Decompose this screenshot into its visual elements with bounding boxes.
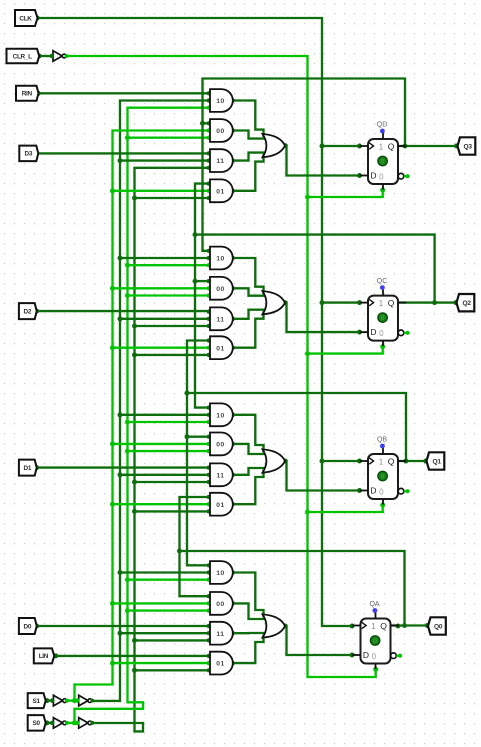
AND gate U3a stage3 10 [210,403,233,426]
wire CLK branch to FF clock [322,301,360,303]
junction select bus [118,316,123,321]
svg-text:RIN: RIN [22,91,33,98]
wire select branch stage3 gate1 bottom input [128,421,209,423]
node stage1 AND3 output [230,158,235,163]
wire RIN to stage1 gate 10 [38,92,209,94]
AND gate U2d stage2 01 [210,336,233,359]
junction select bus [132,638,137,643]
node D1 pin connector [34,465,39,470]
wire select branch stage1 gate4 bottom input [135,197,209,199]
node FF clear pin [380,344,385,349]
junction CLK vertical [320,300,325,305]
svg-text:11: 11 [216,158,224,165]
wire select branch stage4 gate4 bottom input [135,669,209,671]
svg-text:QA: QA [369,601,379,608]
junction Q2 net [193,279,198,284]
wire stage2 gate 01 output to OR [233,311,264,348]
junction select bus [132,352,137,357]
AND gate U4a stage4 10 [210,561,233,584]
inverter U2a (S1 not) [53,695,62,706]
node D0 pin connector [34,624,39,629]
wire D3 to load gate 11 [37,152,209,154]
svg-text:1: 1 [379,299,384,308]
input pin D2 [19,303,37,319]
node stage4 AND2 input [207,594,211,598]
node stage1 FF D pin [357,173,362,178]
junction S1-bar tap [72,698,77,703]
junction select bus [125,293,130,298]
node stage2 AND4 input [207,353,211,357]
AND gate U2a stage2 10 [210,247,233,270]
node Q2 pin connector [453,300,458,305]
svg-text:00: 00 [216,128,225,135]
svg-text:D1: D1 [24,465,32,472]
node stage4 AND2 input [207,609,211,613]
OR gate OR1 [263,134,286,157]
node stage1 AND4 output [230,188,235,193]
AND gate U3c stage3 11 [210,463,233,486]
wire select branch stage2 gate1 bottom input [128,264,209,266]
wire select branch stage3 gate4 bottom input [135,510,209,512]
svg-text:0: 0 [372,652,377,661]
AND gate U4c stage4 11 [210,622,233,645]
svg-text:01: 01 [216,188,225,195]
svg-text:10: 10 [216,412,225,419]
node stage3 AND3 input [207,480,211,484]
node stage2 AND1 input [207,249,211,253]
wire select branch stage2 gate4 mid input [113,347,209,349]
wire D1 to load gate 11 [37,466,209,468]
node stage1 AND3 input [207,159,211,163]
svg-text:00: 00 [216,601,225,608]
svg-text:D0: D0 [24,623,32,630]
wire select branch stage4 gate3 bottom input [135,639,209,641]
node stage1 AND4 input [207,189,211,193]
wire stage4 gate 10 output to OR [233,573,264,618]
node stage4 AND2 output [230,601,235,606]
junction Q1 net [185,434,190,439]
junction select bus [110,502,115,507]
svg-text:QD: QD [377,121,388,128]
node stage2 AND2 input [207,279,211,283]
junction Q2 net [193,232,198,237]
wire stage1 gate 10 output to OR [233,101,264,138]
junction select bus [132,324,137,329]
node stage2 OR output [283,300,288,305]
wire select branch stage2 gate1 mid input [120,257,209,259]
wire S1-bar select line (0x) [75,131,209,701]
input pin S1 [28,693,46,708]
node LIN pin connector [53,653,58,658]
wire S0 select line (x1) [89,168,208,732]
svg-text:QB: QB [377,436,387,443]
node stage3 AND3 input [207,473,211,477]
junction S0-bar tap [72,720,77,725]
node FF clear pin [380,188,385,193]
svg-text:0: 0 [381,315,385,322]
svg-text:10: 10 [216,98,225,105]
node stage2 AND3 input [207,324,211,328]
wire stage2 OR output to FF D [285,303,360,332]
wire select branch stage3 gate2 bottom input [128,450,209,452]
node FF clear pin [380,503,385,508]
wire select branch stage3 gate1 mid input [120,414,209,416]
junction CLK vertical [320,459,325,464]
wire Q1 feedback net (shift-left to stage2) [187,341,406,462]
wire D2 to load gate 11 [37,310,209,312]
node Q3 pin connector [454,144,459,149]
junction select bus [132,668,137,673]
node stage2 AND4 input [207,338,211,342]
input pin CLK [15,10,38,26]
wire S1 inverter to buffer [65,699,79,701]
svg-text:01: 01 [216,345,225,352]
wire S0 pin to inverter [47,722,52,724]
wire stage2 gate 10 output to OR [233,258,264,294]
wire select branch stage3 gate4 mid input [113,503,209,505]
node FF4 clock pin [350,624,355,629]
node stage4 AND3 output [230,631,235,636]
junction select bus [110,441,115,446]
svg-text:1: 1 [371,622,376,631]
AND gate U2c stage2 11 [210,307,233,330]
inverter U3a (S0 not) [53,718,62,729]
wire select branch stage4 gate2 mid input [113,602,209,604]
node stage3 AND4 input [207,509,211,513]
output pin Q1 [427,452,445,469]
input pin LIN [34,648,54,663]
junction CLR vertical [305,351,310,356]
svg-text:0: 0 [381,159,385,166]
wire D0 to load gate 11 [37,625,209,627]
wire S0 inverter to buffer [65,722,79,724]
svg-text:CLR_L: CLR_L [13,53,32,60]
junction Q3 net [200,121,205,126]
AND gate U4b stage4 00 [210,592,233,615]
wire stage4 gate 00 output to OR [233,603,267,619]
node Q0 pin connector [425,623,430,628]
node stage1 AND3 input [207,151,211,155]
node stage2 AND2 output [230,286,235,291]
node stage1 AND1 input [207,106,211,110]
node FF clock pin [357,300,362,305]
junction Q3 feedback tap [403,144,408,149]
wire stage3 gate 11 output to OR [233,468,267,475]
svg-text:11: 11 [216,472,224,479]
svg-text:S1: S1 [32,698,40,705]
junction Q1 feedback tap [404,459,409,464]
junction select bus [125,263,130,268]
AND gate U1c stage1 11 [210,149,233,172]
wire Q2 feedback net (shift-left to stage1) [195,184,435,303]
AND gate U3d stage3 01 [210,493,233,516]
node stage1 AND2 input [207,121,211,125]
svg-text:Q1: Q1 [432,458,441,465]
wire Q2 net down to stage3 gate 10 [195,235,209,408]
OR gate OR3 [263,449,286,472]
svg-text:Q: Q [388,142,395,152]
node stage3 AND2 input [207,435,211,439]
wire stage4 gate 01 output to OR [233,635,264,664]
svg-text:0: 0 [381,474,385,481]
node stage3 FF D pin [357,488,362,493]
wire select branch stage3 gate3 mid input [120,474,209,476]
svg-text:10: 10 [216,570,225,577]
node stage2 AND3 input [207,317,211,321]
wire select branch stage4 gate3 mid input [120,632,209,634]
wire CLR branch to FF clear [308,505,383,512]
wire select branch stage1 gate4 mid input [113,190,209,192]
node stage3 AND1 input [207,420,211,424]
wire CLK branch to FF clock [322,460,360,462]
node stage4 AND4 output [230,661,235,666]
wire stage2 gate 11 output to OR [233,310,267,319]
svg-text:00: 00 [216,442,225,449]
input pin S0 [28,715,46,731]
AND gate U4d stage4 01 [210,652,233,675]
node stage4 AND3 input [207,624,211,628]
AND gate U1d stage1 01 [210,179,233,202]
node FF4 clear pin [373,667,378,672]
node stage4 AND4 input [207,654,211,658]
node FF4 Q pin [396,624,401,629]
input pin D3 [19,146,38,162]
input pin D1 [19,460,37,476]
wire CLR branch to FF clear [308,190,383,197]
node stage4 AND1 input [207,563,211,567]
node stage3 AND4 input [207,495,211,499]
wire Q1 output to pin [399,460,426,462]
node FF clock pin [357,144,362,149]
wire stage1 gate 01 output to OR [233,154,264,191]
junction Q2 feedback tap [432,300,437,305]
svg-text:D: D [363,650,369,660]
wire select branch stage4 gate4 mid input [113,662,209,664]
wire select branch stage3 gate2 mid input [113,443,209,445]
wire select branch stage4 gate1 mid input [120,571,209,573]
svg-text:Q: Q [380,621,387,631]
junction select bus [132,509,137,514]
junction select bus [125,135,130,140]
svg-text:D: D [370,170,376,180]
wire CLK net: pin to all FF clocks [38,18,352,626]
node stage4 AND2 input [207,601,211,605]
junction CLR vertical [305,195,310,200]
svg-text:Q3: Q3 [463,143,472,150]
node stage4 AND4 input [207,661,211,665]
wire CLR_L pin to inverter [39,55,52,57]
node stage3 AND2 input [207,449,211,453]
svg-text:01: 01 [216,661,225,668]
junction select bus [118,412,123,417]
node stage2 AND3 input [207,310,211,314]
node stage3 AND1 output [230,412,235,417]
node stage2 AND1 input [207,263,211,267]
junction select bus [125,449,130,454]
wire Q3 output to pin [399,145,456,147]
node stage2 AND1 output [230,256,235,261]
svg-text:D3: D3 [25,151,33,158]
svg-text:10: 10 [216,256,225,263]
wire S0-bar select line (x0) [75,108,209,723]
svg-text:01: 01 [216,502,225,509]
node stage3 AND1 input [207,406,211,410]
node stage1 AND4 input [207,182,211,186]
wire Q0 feedback net (shift-left to stage3) [180,497,405,626]
node stage2 AND3 output [230,316,235,321]
output pin Q2 [457,294,475,311]
svg-text:0: 0 [379,329,384,338]
wire CLR net: inverter output to FF clear inputs [65,56,375,677]
node FF clock pin [357,459,362,464]
node stage3 AND4 input [207,502,211,506]
node S0 pin connector [45,720,50,725]
node stage3 AND3 input [207,466,211,470]
wire select branch stage2 gate2 mid input [113,287,209,289]
wire stage3 gate 00 output to OR [233,444,267,454]
OR gate OR2 [263,291,286,314]
node stage4 AND3 input [207,631,211,635]
inverter U3b (S0 buffer) [79,718,88,729]
svg-text:LIN: LIN [39,653,49,660]
node stage1 OR output [283,143,288,148]
wire stage4 gate 11 output to OR [233,632,267,635]
node stage1 AND1 input [207,91,211,95]
wire S1 select line (1x) [89,101,208,701]
output pin Q3 [458,137,476,154]
node CLR_L pin connector [37,54,42,59]
node stage4 AND4 input [207,668,211,672]
node stage4 AND1 input [207,570,211,574]
svg-text:0: 0 [379,487,384,496]
wire select branch stage2 gate3 bottom input [135,325,209,327]
wire select branch stage3 gate3 bottom input [135,481,209,483]
svg-text:Q: Q [388,298,395,308]
node D2 pin connector [34,309,39,314]
node stage2 AND4 input [207,346,211,350]
node stage3 AND2 input [207,442,211,446]
node stage2 AND2 input [207,286,211,290]
svg-text:QC: QC [377,278,388,285]
junction select bus [118,631,123,636]
wire select branch stage2 gate4 bottom input [135,354,209,356]
node stage4 AND1 output [230,570,235,575]
junction select bus [132,480,137,485]
wire stage3 gate 10 output to OR [233,415,264,453]
wire select branch stage4 gate1 bottom input [128,579,209,581]
OR gate OR4 [263,614,286,637]
wire Q1 net down to stage4 gate 10 [187,393,209,565]
svg-text:1: 1 [379,142,384,151]
junction select bus [110,601,115,606]
svg-text:Q: Q [388,457,395,467]
output pin Q0 [428,617,446,634]
svg-text:CLK: CLK [19,15,32,22]
wire Q0 output to pin [392,624,428,626]
node stage1 AND2 input [207,136,211,140]
wire select branch stage2 gate3 mid input [120,318,209,320]
node S1 pin connector [45,698,50,703]
wire stage1 gate 11 output to OR [233,153,267,161]
wire Q0 hold branch to stage4 gate 00 [180,551,209,596]
node RIN pin connector [36,91,41,96]
wire select branch stage1 gate2 bottom input [128,137,209,139]
wire LIN to stage4 gate 01 [56,655,209,657]
svg-text:00: 00 [216,286,225,293]
svg-text:D: D [370,327,376,337]
node stage2 AND2 input [207,293,211,297]
node stage3 AND1 input [207,413,211,417]
node stage4 AND3 input [207,638,211,642]
wire Q1 hold branch to stage3 gate 00 [187,436,209,438]
junction select bus [118,158,123,163]
wire Q3 feedback net (hold + shift-right) [203,79,406,251]
junction select bus [125,577,130,582]
input pin CLR_L [7,49,40,64]
AND gate U3b stage3 00 [210,433,233,456]
node stage3 AND3 output [230,472,235,477]
svg-text:1: 1 [379,457,384,466]
node stage1 AND3 input [207,166,211,170]
node stage4 FF D pin [350,653,355,658]
wire CLR branch to FF clear [308,347,383,354]
junction select bus [118,472,123,477]
junction select bus [118,570,123,575]
wire select branch stage1 gate3 mid input [120,159,209,161]
node stage2 FF D pin [357,330,362,335]
wire Q3 hold branch to stage1 gate 00 [203,122,209,124]
junction Q0 net [177,549,182,554]
junction select bus [110,345,115,350]
node stage1 AND1 output [230,98,235,103]
wire Q2 hold branch to stage2 gate 00 [195,280,209,282]
AND gate U1a stage1 10 [210,89,233,112]
node stage1 AND1 input [207,98,211,102]
inverter U1 (CLR_L) [53,51,62,62]
svg-text:D2: D2 [24,308,32,315]
input pin RIN [16,86,39,101]
svg-text:0: 0 [379,172,384,181]
junction select bus [132,196,137,201]
node stage3 AND4 output [230,502,235,507]
wire stage1 gate 00 output to OR [233,131,267,139]
junction select bus [125,608,130,613]
junction CLK vertical [320,144,325,149]
svg-text:D: D [370,485,376,495]
node stage1 AND2 output [230,128,235,133]
svg-text:Q0: Q0 [434,623,443,630]
AND gate U1b stage1 00 [210,119,233,142]
svg-text:S0: S0 [32,720,40,727]
node stage4 AND1 input [207,578,211,582]
svg-text:Q2: Q2 [462,300,471,307]
node stage1 AND2 input [207,128,211,132]
node CLK pin connector [35,16,40,21]
wire stage4 OR output to FF D [285,626,352,655]
wire stage3 OR output to FF D [285,461,360,491]
junction CLR vertical [305,510,310,515]
inverter U2b (S1 buffer) [79,695,88,706]
junction select bus [110,286,115,291]
input pin D0 [19,618,37,634]
wire Q2 output to pin [399,301,456,303]
node Q1 pin connector [423,459,428,464]
wire stage2 gate 00 output to OR [233,288,267,295]
svg-text:11: 11 [216,316,224,323]
node D3 pin connector [34,151,39,156]
node stage2 AND1 input [207,256,211,260]
svg-text:0: 0 [373,638,377,645]
